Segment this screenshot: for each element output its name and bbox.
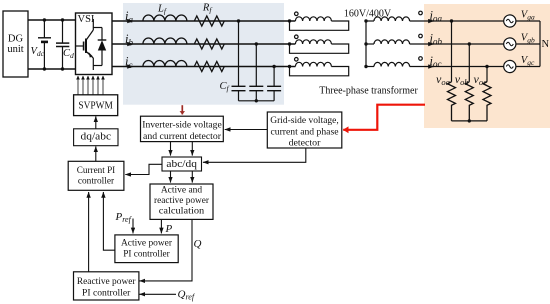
primary junction dots <box>288 19 291 68</box>
battery Vdc <box>38 20 51 69</box>
svg-text:and current detector: and current detector <box>143 131 222 142</box>
filter cap bus c <box>273 67 275 87</box>
grid-side voltage current and phase detector box <box>267 112 342 148</box>
svg-text:Qref: Qref <box>178 288 196 301</box>
load resistor b <box>465 82 473 121</box>
svg-text:N: N <box>542 39 550 50</box>
arrow on phase b <box>126 43 133 45</box>
svg-text:Vdc: Vdc <box>31 46 45 58</box>
wire reactive PI to current PI <box>88 192 90 272</box>
svg-text:detector: detector <box>289 137 322 148</box>
svg-text:Pref: Pref <box>115 211 133 224</box>
wire abc/dq to current PI controller <box>125 164 162 174</box>
svg-text:Cd: Cd <box>63 48 74 60</box>
transformer secondary winding a <box>366 11 504 21</box>
svg-text:Inverter-side voltage: Inverter-side voltage <box>142 119 222 130</box>
grid source Vga <box>504 10 540 28</box>
grid source Vgb <box>504 33 540 51</box>
svg-text:controller: controller <box>78 176 115 187</box>
resistor Rf phase a <box>194 16 224 26</box>
arrow on line oa <box>428 20 434 22</box>
svg-text:Active and: Active and <box>161 185 202 196</box>
grid source Vgc <box>504 55 540 73</box>
phase line c <box>112 66 295 68</box>
svg-text:Q: Q <box>194 238 202 250</box>
wire inverter detector to abc/dq (2) <box>191 142 193 156</box>
svg-text:unit: unit <box>7 44 23 55</box>
reactive power PI controller box <box>74 272 139 300</box>
capacitor Cf a <box>232 86 246 101</box>
wire Q to reactive PI <box>139 219 192 281</box>
filter cap bottom bus <box>239 100 275 102</box>
wire: tap a down <box>451 21 453 82</box>
svg-text:current and phase: current and phase <box>271 126 340 137</box>
grid neutral bus <box>539 21 541 67</box>
VSI box <box>76 13 113 75</box>
DG unit box <box>3 11 28 77</box>
current PI controller box <box>68 161 124 190</box>
filter cap bus a <box>238 21 240 86</box>
wire abc/dq to power calculation (1) <box>170 171 172 183</box>
load resistor a <box>448 82 456 121</box>
wire Qref input <box>139 293 176 295</box>
svg-text:P: P <box>165 223 173 235</box>
resistor Rf phase c <box>194 62 224 72</box>
capacitor Cf b <box>249 86 263 101</box>
svg-text:PI controller: PI controller <box>82 288 131 299</box>
wire P calculation to active PI <box>160 219 162 233</box>
phase line b <box>112 43 295 45</box>
svg-text:abc/dq: abc/dq <box>166 159 197 170</box>
IGBT emitter arrow <box>89 52 93 58</box>
svg-text:160V/400V: 160V/400V <box>344 9 392 20</box>
active and reactive power calculation box <box>150 184 213 219</box>
wire: top DC rail <box>28 19 76 21</box>
svg-text:SVPWM: SVPWM <box>78 101 113 112</box>
gate signal wires SVPWM to VSI <box>78 76 103 95</box>
transformer secondary winding b <box>366 34 504 44</box>
wire dq/abc to SVPWM <box>95 116 97 129</box>
svg-text:DG: DG <box>8 34 24 45</box>
wire: tap b down <box>468 44 470 82</box>
svg-text:dq/abc: dq/abc <box>81 132 112 143</box>
IGBT Q1 <box>76 19 94 70</box>
transformer primary winding b <box>290 35 349 53</box>
red sense arrow to inverter-side detector <box>181 105 183 114</box>
transformer secondary star bus <box>365 21 367 67</box>
arrow on phase c <box>126 66 133 68</box>
svg-text:Grid-side voltage,: Grid-side voltage, <box>270 115 339 126</box>
abc/dq box <box>162 157 202 171</box>
svg-text:VSI: VSI <box>78 14 95 25</box>
diode D1 <box>93 28 106 66</box>
wire: tap c down <box>486 67 488 82</box>
dq/abc box <box>74 129 118 146</box>
load bottom bus <box>452 120 488 122</box>
svg-text:calculation: calculation <box>159 206 205 217</box>
arrow on line ob <box>428 43 434 45</box>
wire active PI to current PI <box>103 192 115 250</box>
arrow on phase a <box>126 20 133 22</box>
phase line a <box>112 20 295 22</box>
wire abc/dq to power calculation (2) <box>191 171 193 183</box>
wire current PI to dq/abc <box>95 146 97 161</box>
inductor Lf phase c <box>143 61 187 67</box>
capacitor Cd <box>56 20 69 69</box>
filter cap bus b <box>255 44 257 86</box>
inductor Lf phase b <box>143 38 187 44</box>
svg-text:Three-phase transformer: Three-phase transformer <box>319 86 418 97</box>
svg-text:Reactive power: Reactive power <box>77 276 136 287</box>
active power PI controller box <box>115 235 178 263</box>
wire grid detector to inverter detector <box>225 129 268 131</box>
transformer primary winding c <box>290 58 349 76</box>
wire inverter detector to abc/dq (1) <box>170 142 172 156</box>
grid shaded region <box>424 4 550 128</box>
SVPWM box <box>74 95 118 116</box>
wire: bottom DC rail <box>28 68 76 70</box>
inverter-side voltage and current detector box <box>141 116 224 142</box>
wire Pref input <box>132 219 134 234</box>
junction dots DC link <box>43 18 64 70</box>
LC filter shaded region <box>123 3 284 105</box>
inductor Lf phase a <box>143 15 187 21</box>
junction dots filter <box>237 19 276 102</box>
secondary star dots <box>364 19 367 68</box>
transformer secondary winding c <box>366 57 504 67</box>
load resistor c <box>483 82 491 121</box>
svg-text:Active power: Active power <box>121 238 173 249</box>
svg-text:reactive power: reactive power <box>154 195 210 206</box>
resistor Rf phase b <box>194 39 224 49</box>
load junction dots <box>450 19 489 122</box>
svg-text:Current PI: Current PI <box>77 165 116 176</box>
red sense wire from grid to grid-side detector <box>343 105 425 130</box>
wire grid detector to abc/dq <box>203 148 306 162</box>
load tap wires <box>452 21 488 82</box>
capacitor Cf c <box>267 86 281 101</box>
svg-text:PI controller: PI controller <box>123 249 170 260</box>
arrow on line oc <box>428 66 434 68</box>
transformer primary winding a <box>290 12 349 30</box>
